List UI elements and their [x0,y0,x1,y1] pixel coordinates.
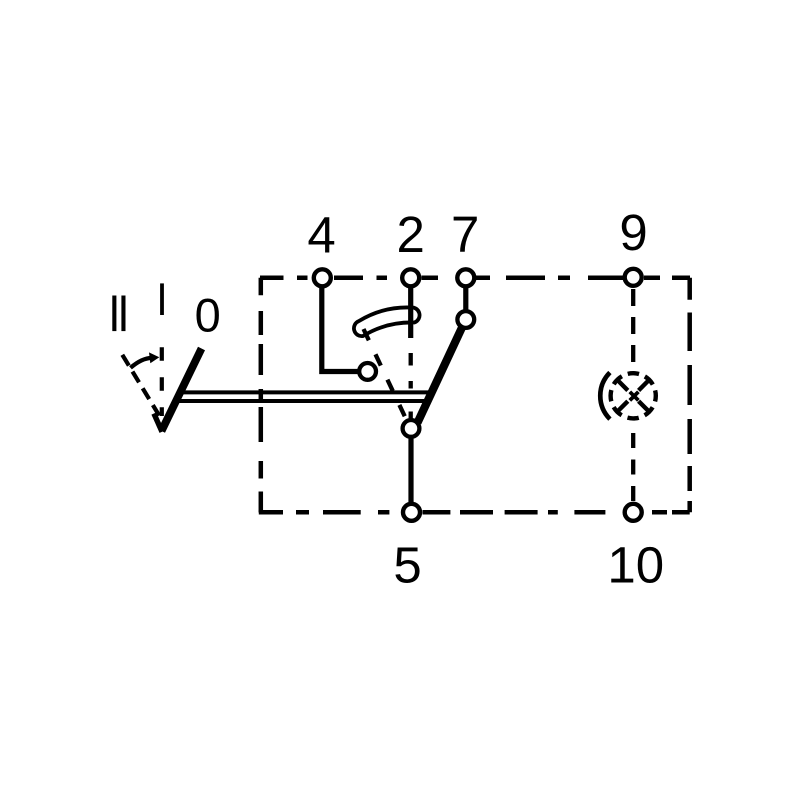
switch body outline: top border (dash-dot) [260,276,690,281]
wire: terminal 2 down through bridge [408,282,413,338]
terminal 9 circle [625,269,642,286]
terminal 7 circle [457,269,474,286]
pilot lamp: left solid arc [600,373,610,420]
fixed contact circle (for terminal 4 path) [359,363,376,380]
pilot lamp: spoke NW [618,381,627,390]
contact bridge (curved capsule) on terminal 2 [354,307,420,336]
svg-text:4: 4 [307,207,335,264]
svg-text:9: 9 [619,204,647,261]
label position II (two bars) [112,296,125,332]
wire: terminal 4 down then right to fixed contact [322,282,358,372]
label position I (bar) [160,283,164,315]
pilot lamp: spoke SW [618,401,627,410]
terminal 10 circle [625,504,642,521]
pilot lamp: center cross x [630,392,639,401]
actuator lever (thick, position 0) [162,349,202,432]
switch body outline: left border (dash-dot) [259,278,264,513]
moving contact arm (thick) from circle under 7 to pivot [418,327,463,423]
wire: terminal 7 down to inner contact circle [463,282,468,310]
arrowhead of curved arrow [149,352,159,363]
dashed path: bridge left end to pivot (position II) [364,329,407,420]
pilot lamp: dashed circle [611,373,656,418]
svg-text:10: 10 [607,537,664,594]
svg-text:2: 2 [397,206,425,263]
pivot contact circle [403,420,420,437]
dashed position line II (diagonal) [122,355,159,416]
curved arrow from II to I [131,358,152,368]
switch body outline: right border (dash-dot) [687,278,692,513]
switch body outline: bottom border (dash-dot) [259,510,690,515]
terminal 5 circle [403,504,420,521]
pilot lamp: spoke SE [639,401,648,410]
actuator link: double horizontal line (upper) [181,390,436,394]
dashed wire: terminal 9 down to lamp [631,289,635,372]
inner contact circle under terminal 7 [457,311,474,328]
actuator link: double horizontal line (lower) [176,399,431,403]
svg-text:0: 0 [195,289,221,342]
dashed wire: lamp down to terminal 10 [631,433,635,502]
terminal 4 circle [314,269,331,286]
svg-text:7: 7 [451,206,479,263]
pilot lamp: spoke NE [639,381,648,390]
dashed position line I (vertical) [160,347,164,416]
dashed path: terminal 2 line continuing to pivot (position I) [409,353,413,420]
terminal 2 circle [402,269,419,286]
arrowhead left flank at lever tip [154,414,162,432]
wire: pivot down to terminal 5 [408,436,413,508]
svg-text:5: 5 [393,537,421,594]
